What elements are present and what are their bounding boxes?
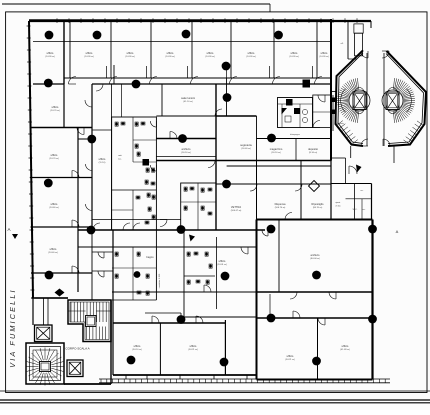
svg-text:ufficio: ufficio [321, 51, 328, 55]
svg-text:ufficio: ufficio [52, 105, 59, 109]
svg-text:ufficio: ufficio [47, 51, 54, 55]
svg-text:archivio: archivio [311, 253, 320, 257]
svg-text:(24.01 m): (24.01 m) [217, 264, 227, 266]
svg-text:(41.69 m): (41.69 m) [340, 349, 350, 351]
svg-text:(104.07 m): (104.07 m) [231, 210, 242, 212]
svg-text:ufficio: ufficio [291, 51, 298, 55]
svg-text:(11.10): (11.10) [99, 162, 106, 164]
svg-text:ufficio: ufficio [287, 354, 294, 358]
svg-text:w.c.: w.c. [118, 159, 122, 161]
svg-text:ufficio: ufficio [127, 51, 134, 55]
svg-text:ufficio: ufficio [51, 153, 58, 157]
svg-text:corridoio 1.150: corridoio 1.150 [158, 273, 161, 288]
svg-text:magazzino: magazzino [270, 147, 283, 151]
svg-text:(14.30 m): (14.30 m) [45, 56, 55, 58]
svg-text:Dispensa: Dispensa [275, 202, 286, 206]
svg-text:uff.: uff. [341, 43, 344, 45]
svg-text:deposito: deposito [336, 122, 344, 125]
svg-text:(24.70 m): (24.70 m) [49, 158, 59, 160]
svg-text:archivio: archivio [182, 147, 191, 151]
svg-text:(9.10): (9.10) [336, 206, 341, 208]
svg-text:(24.40 m): (24.40 m) [48, 252, 58, 254]
svg-text:deposito: deposito [308, 147, 318, 151]
svg-text:ufficio: ufficio [99, 157, 106, 161]
svg-text:(84.04 m): (84.04 m) [310, 258, 320, 260]
svg-text:w.c.: w.c. [360, 190, 364, 192]
svg-text:(41.10 m): (41.10 m) [183, 101, 193, 103]
svg-text:ufficio: ufficio [51, 202, 58, 206]
svg-text:VIA FUMICELLI: VIA FUMICELLI [8, 288, 17, 367]
svg-text:ufficio: ufficio [248, 51, 255, 55]
svg-text:(16.40 m): (16.40 m) [241, 148, 251, 150]
svg-text:(34.21 m): (34.21 m) [285, 359, 295, 361]
svg-text:A: A [7, 227, 10, 232]
svg-text:(14.30 m): (14.30 m) [319, 56, 329, 58]
svg-text:ufficio: ufficio [219, 259, 226, 263]
svg-text:VETTRA: VETTRA [231, 205, 242, 209]
svg-text:ufficio: ufficio [190, 344, 197, 348]
svg-text:W.C.: W.C. [353, 209, 358, 211]
svg-text:(34.10 m): (34.10 m) [132, 349, 142, 351]
svg-text:(14.30 m): (14.30 m) [165, 56, 175, 58]
svg-text:(14.30 m): (14.30 m) [246, 56, 256, 58]
svg-text:sala riunioni: sala riunioni [181, 96, 195, 100]
svg-text:CORPO SCALA A: CORPO SCALA A [65, 347, 89, 351]
svg-text:(24.60 m): (24.60 m) [49, 207, 59, 209]
svg-text:(14.30 m): (14.30 m) [84, 56, 94, 58]
svg-text:w.c.: w.c. [362, 209, 366, 211]
svg-text:anti: anti [118, 154, 122, 157]
svg-text:(16.10 m): (16.10 m) [181, 152, 191, 154]
svg-text:ufficio: ufficio [207, 51, 214, 55]
svg-text:bagno: bagno [146, 255, 154, 259]
svg-text:(34.21 m): (34.21 m) [188, 349, 198, 351]
svg-text:(94.70 m): (94.70 m) [313, 207, 323, 209]
svg-text:(16.10 m): (16.10 m) [271, 152, 281, 154]
svg-text:ufficio: ufficio [50, 247, 57, 251]
svg-text:ufficio: ufficio [342, 344, 349, 348]
svg-text:(14.30 m): (14.30 m) [125, 56, 135, 58]
svg-text:A: A [396, 229, 399, 234]
svg-text:(24.70 m): (24.70 m) [50, 110, 60, 112]
svg-text:Ripostiglio: Ripostiglio [312, 202, 325, 206]
svg-text:(106.70 m): (106.70 m) [275, 207, 286, 209]
svg-text:ufficio: ufficio [167, 51, 174, 55]
svg-text:(14.30 m): (14.30 m) [289, 56, 299, 58]
svg-text:(9.10 m): (9.10 m) [309, 152, 317, 154]
svg-text:(14.30 m): (14.30 m) [205, 56, 215, 58]
svg-text:segreteria: segreteria [240, 143, 252, 147]
svg-text:ufficio: ufficio [86, 51, 93, 55]
svg-text:ripost.: ripost. [335, 201, 341, 204]
svg-text:ufficio: ufficio [134, 344, 141, 348]
svg-text:disimpegno: disimpegno [290, 134, 300, 136]
